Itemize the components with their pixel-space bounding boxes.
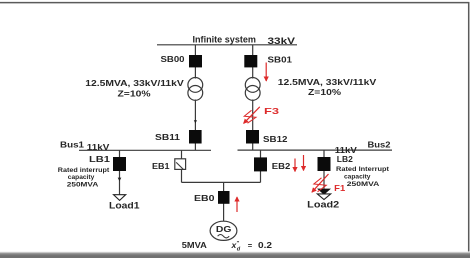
svg-text:12.5MVA, 33kV/11kV: 12.5MVA, 33kV/11kV bbox=[278, 78, 377, 87]
svg-text:SB12: SB12 bbox=[263, 134, 288, 144]
svg-text:Bus1: Bus1 bbox=[60, 140, 84, 150]
svg-text:capacity: capacity bbox=[344, 173, 371, 180]
svg-text:33kV: 33kV bbox=[268, 36, 296, 46]
svg-text:d: d bbox=[237, 247, 241, 253]
svg-text:SB01: SB01 bbox=[268, 54, 293, 64]
svg-text:capacity: capacity bbox=[68, 174, 95, 181]
svg-text:Rated Interrupt: Rated Interrupt bbox=[336, 166, 390, 173]
svg-text:=: = bbox=[248, 241, 253, 250]
svg-text:EB1: EB1 bbox=[152, 161, 170, 171]
svg-text:Bus2: Bus2 bbox=[368, 139, 391, 149]
svg-text:LB1: LB1 bbox=[89, 154, 110, 164]
svg-text:250MVA: 250MVA bbox=[67, 182, 99, 189]
svg-text:Infinite system: Infinite system bbox=[193, 34, 257, 44]
svg-text:Rated interrupt: Rated interrupt bbox=[58, 167, 110, 174]
svg-text:DG: DG bbox=[216, 224, 232, 234]
svg-text:0.2: 0.2 bbox=[258, 240, 272, 250]
svg-text:Load1: Load1 bbox=[109, 200, 140, 210]
svg-text:250MVA: 250MVA bbox=[347, 181, 380, 188]
svg-text:SB00: SB00 bbox=[161, 54, 185, 64]
svg-text:Z=10%: Z=10% bbox=[118, 90, 151, 99]
svg-text:F3: F3 bbox=[264, 106, 280, 116]
svg-text:EB2: EB2 bbox=[272, 161, 291, 171]
svg-text:LB2: LB2 bbox=[337, 154, 353, 164]
svg-text:Load2: Load2 bbox=[307, 199, 339, 209]
svg-text:Z=10%: Z=10% bbox=[308, 88, 341, 97]
svg-text:11kV: 11kV bbox=[87, 142, 110, 152]
svg-text:F1: F1 bbox=[334, 183, 345, 193]
svg-text:EB0: EB0 bbox=[194, 193, 215, 203]
svg-text:SB11: SB11 bbox=[155, 132, 180, 142]
svg-text:5MVA: 5MVA bbox=[182, 240, 207, 250]
svg-text:12.5MVA, 33kV/11kV: 12.5MVA, 33kV/11kV bbox=[85, 79, 184, 88]
